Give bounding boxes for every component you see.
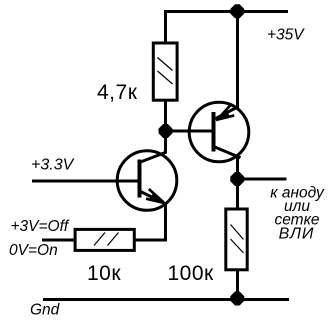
transistor Q1 collector lead [141, 152, 167, 162]
wire: node A down to Q1 collector [164, 131, 167, 153]
transistor Q2 emitter arrow (into base, PNP) [214, 105, 235, 121]
wire: output node to R3 top [236, 179, 239, 208]
wire: ground rail [43, 298, 289, 301]
resistor R1 4,7k body [153, 43, 177, 100]
svg-text:+3.3V: +3.3V [31, 157, 75, 174]
svg-text:4,7к: 4,7к [97, 81, 138, 104]
wire: R1 bottom to node A [164, 102, 167, 132]
resistor R1 hatch lines [158, 58, 173, 85]
wire: R3 bottom to ground rail [236, 271, 239, 299]
transistor Q1 (NPN) circle [117, 151, 177, 211]
node: output junction dot [230, 172, 244, 186]
wire: Q2 emitter to +35V rail [236, 11, 239, 108]
resistor R2 hatch lines [94, 233, 119, 246]
wire: Q1 emitter down then left to R2 [136, 202, 166, 240]
transistor Q2 (PNP) circle [189, 102, 249, 162]
transistor Q2 emitter lead [216, 107, 239, 119]
node: ground junction dot [230, 292, 244, 306]
resistor R2 10k body [75, 229, 134, 250]
transistor Q1 emitter lead [141, 192, 165, 204]
transistor Q1 emitter arrow (outward, NPN) [146, 189, 166, 204]
svg-text:Gnd: Gnd [30, 302, 61, 319]
wire: node A to Q2 base [166, 130, 213, 133]
wire: +35V top rail [164, 10, 288, 13]
svg-text:+3V=Off: +3V=Off [11, 218, 70, 235]
wire: Q2 collector down to output node [236, 156, 239, 179]
wire: input stub to R2 [42, 239, 74, 242]
transistor Q2 base bar [212, 112, 216, 152]
transistor Q1 base bar [138, 160, 142, 198]
wire: output stub to the right [238, 178, 287, 181]
node: +35V junction dot [230, 4, 244, 18]
node A junction dot [159, 124, 173, 138]
transistor Q2 collector lead [214, 147, 241, 158]
svg-text:0V=On: 0V=On [9, 242, 58, 259]
resistor R3 100k body [226, 209, 247, 270]
svg-text:10к: 10к [87, 262, 121, 285]
wire: top rail drop to resistor R1 [164, 10, 167, 42]
resistor R3 hatch lines [231, 225, 244, 254]
svg-text:ВЛИ: ВЛИ [279, 226, 315, 243]
svg-text:100к: 100к [168, 262, 215, 285]
wire: +3.3V to Q1 base [32, 180, 138, 183]
svg-text:+35V: +35V [267, 27, 305, 44]
